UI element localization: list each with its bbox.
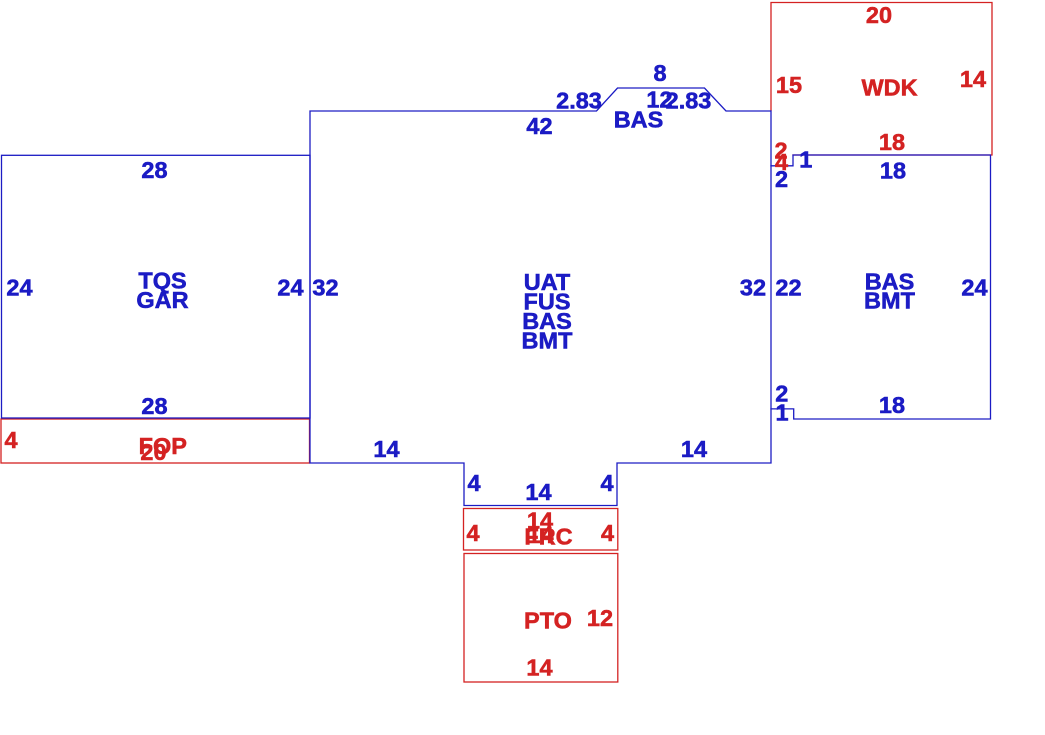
svg-text:18: 18 [879, 129, 905, 155]
svg-text:24: 24 [6, 275, 32, 301]
svg-text:20: 20 [140, 439, 166, 465]
svg-text:14: 14 [681, 436, 707, 462]
svg-text:BMT: BMT [522, 328, 574, 354]
svg-text:32: 32 [740, 275, 766, 301]
FRC box outline (red) [464, 509, 618, 551]
svg-text:GAR: GAR [136, 287, 188, 313]
svg-text:24: 24 [277, 275, 303, 301]
svg-text:WDK: WDK [861, 75, 917, 101]
svg-text:42: 42 [526, 113, 552, 139]
svg-text:4: 4 [4, 427, 17, 453]
svg-text:18: 18 [880, 158, 906, 184]
svg-text:PTO: PTO [524, 608, 572, 634]
TQS GAR outline (blue, left rectangle) [2, 155, 311, 418]
svg-text:8: 8 [653, 60, 666, 86]
svg-text:1: 1 [799, 147, 812, 173]
svg-text:14: 14 [960, 66, 986, 92]
svg-text:22: 22 [775, 275, 801, 301]
svg-text:BAS: BAS [614, 107, 664, 133]
svg-text:4: 4 [466, 520, 479, 546]
svg-text:4: 4 [467, 470, 480, 496]
PTO box outline (red) [464, 554, 618, 683]
svg-text:28: 28 [141, 157, 167, 183]
central UAT/FUS/BAS/BMT outline (blue polygon with bay and notch) [310, 88, 771, 506]
svg-text:32: 32 [312, 275, 338, 301]
svg-text:12: 12 [587, 605, 613, 631]
WDK outline (red, top-right rectangle) [771, 3, 992, 156]
svg-text:BMT: BMT [864, 288, 916, 314]
svg-text:28: 28 [141, 393, 167, 419]
svg-text:2.83: 2.83 [556, 88, 602, 114]
svg-text:FRC: FRC [524, 524, 572, 550]
svg-text:14: 14 [526, 655, 552, 681]
svg-text:14: 14 [373, 436, 399, 462]
svg-text:4: 4 [601, 520, 614, 546]
FOP strip outline (red, below garage) [1, 419, 310, 463]
svg-text:2.83: 2.83 [666, 88, 712, 114]
svg-text:24: 24 [961, 275, 987, 301]
svg-text:18: 18 [879, 392, 905, 418]
svg-text:2: 2 [775, 166, 788, 192]
svg-text:14: 14 [525, 479, 551, 505]
svg-text:15: 15 [776, 72, 802, 98]
svg-text:20: 20 [866, 2, 892, 28]
svg-text:1: 1 [775, 400, 788, 426]
BAS BMT outline (blue, right rectangle with step joints) [771, 155, 991, 419]
svg-text:4: 4 [600, 470, 613, 496]
